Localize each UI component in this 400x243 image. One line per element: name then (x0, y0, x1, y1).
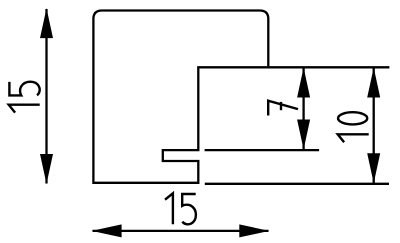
arrowhead 10 up (367, 68, 380, 98)
arrowhead 10 down (367, 153, 380, 183)
profile outline: block with rounded top corners, bottom edge and notched right edge (93, 11, 268, 183)
dimension line bottom 15 (93, 230, 269, 232)
label 15 (bottom) (165, 193, 196, 224)
arrowhead bottom-15 right (239, 224, 269, 237)
arrowhead left-15 down (40, 154, 53, 184)
step top edge + extension line y=67.3 (197, 66, 389, 68)
dimension line left 15 (45, 9, 47, 184)
arrowhead left-15 up (40, 8, 53, 38)
profile notch (rabbet) on right edge (163, 67, 199, 184)
mid extension line (7 level) y=150.1 (205, 149, 320, 151)
label 7 (rotated) (268, 101, 298, 116)
bottom extension line y=183.8 (205, 183, 389, 185)
label 15 (left, rotated) (9, 82, 40, 113)
arrowhead 7 up (297, 68, 310, 98)
arrowhead 7 down (297, 120, 310, 150)
arrowhead bottom-15 left (92, 224, 122, 237)
label 10 (rotated) (338, 112, 369, 142)
dimension line 7 (302, 68, 304, 149)
dimension line 10 (373, 68, 375, 183)
